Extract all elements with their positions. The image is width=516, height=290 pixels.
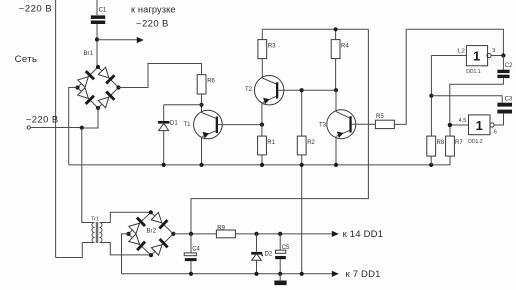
svg-text:C2: C2	[505, 63, 513, 69]
svg-text:1,2: 1,2	[457, 48, 465, 54]
svg-text:C1: C1	[99, 8, 107, 14]
svg-text:к нагрузке: к нагрузке	[131, 4, 176, 14]
svg-text:Вг2: Вг2	[147, 228, 157, 234]
svg-text:1: 1	[473, 48, 480, 63]
svg-text:6: 6	[494, 130, 497, 136]
svg-text:Tr1: Tr1	[91, 217, 99, 223]
svg-text:R6: R6	[207, 79, 215, 85]
svg-text:C5: C5	[282, 245, 290, 251]
svg-text:Сеть: Сеть	[15, 54, 38, 65]
svg-text:R3: R3	[268, 44, 276, 50]
svg-text:~220 В: ~220 В	[26, 114, 59, 125]
svg-text:Вг1: Вг1	[84, 51, 94, 57]
svg-text:D2: D2	[265, 251, 273, 257]
svg-text:4,5: 4,5	[459, 118, 467, 124]
svg-text:R2: R2	[307, 140, 315, 146]
svg-text:к 7 DD1: к 7 DD1	[346, 269, 381, 280]
svg-text:DD1.1: DD1.1	[466, 69, 480, 75]
svg-text:~220 В: ~220 В	[19, 3, 52, 14]
svg-text:C3: C3	[505, 97, 513, 103]
svg-text:R9: R9	[217, 225, 225, 231]
svg-text:к 14 DD1: к 14 DD1	[343, 229, 384, 240]
svg-text:R8: R8	[437, 140, 445, 146]
svg-text:3: 3	[492, 48, 495, 54]
svg-text:T1: T1	[184, 122, 192, 128]
svg-text:R7: R7	[455, 140, 463, 146]
svg-text:T2: T2	[245, 87, 253, 93]
svg-text:~220 В: ~220 В	[136, 19, 169, 30]
svg-text:C4: C4	[192, 247, 200, 253]
svg-text:D1: D1	[170, 121, 178, 127]
svg-text:R5: R5	[376, 114, 384, 120]
svg-text:R4: R4	[341, 44, 349, 50]
svg-text:1: 1	[476, 118, 483, 133]
svg-text:T3: T3	[319, 123, 327, 129]
svg-text:DD1.2: DD1.2	[468, 139, 482, 145]
svg-text:R1: R1	[267, 140, 275, 146]
